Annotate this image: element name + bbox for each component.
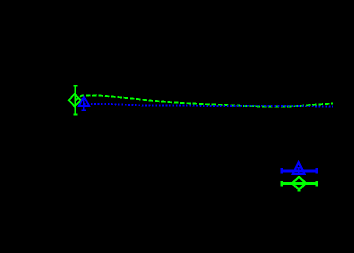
legend blue sample line — [281, 168, 319, 174]
blue error bar — [81, 99, 85, 110]
legend green sample line — [281, 181, 319, 191]
green error bar — [73, 86, 77, 115]
legend blue triangle marker — [293, 162, 305, 174]
blue series curve — [84, 104, 333, 107]
legend green diamond marker — [292, 177, 307, 189]
green diamond marker — [69, 94, 81, 107]
green series curve — [75, 95, 333, 106]
blue triangle marker — [79, 97, 89, 106]
